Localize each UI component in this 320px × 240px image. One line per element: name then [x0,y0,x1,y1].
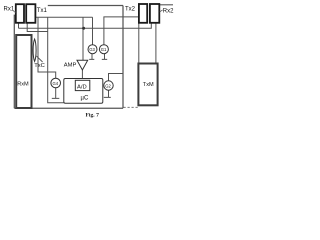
frame left side [14,15,15,108]
frame top [48,5,123,7]
generator G4 [51,78,61,88]
svg-text:G1: G1 [101,47,107,52]
svg-text:RxM: RxM [17,82,29,88]
coil Rx2 [150,4,159,23]
wire Rx2 lead / TxM right lead [155,23,157,64]
wire uC branch [48,17,64,103]
svg-text:Rx2: Rx2 [163,9,174,15]
box uC [64,79,103,104]
svg-text:A/D: A/D [77,85,87,91]
svg-text:Fig. 7: Fig. 7 [86,113,100,119]
wire TxC branch [38,17,56,78]
svg-text:Rx1: Rx1 [4,7,15,13]
coil TxM box [138,64,157,106]
wire G2 riser elbow [109,74,124,81]
wire G2 bottom terminal [104,91,111,98]
amplifier AMP [77,60,88,70]
wire Tx1 lead [27,23,48,32]
svg-text:TxC: TxC [34,63,45,69]
frame top right segment [160,4,173,6]
svg-text:Tx1: Tx1 [37,8,48,14]
svg-text:µC: µC [81,96,89,102]
frame dashed bottom link [124,106,139,108]
leader Rx1 [14,11,17,14]
svg-text:TxM: TxM [143,82,154,88]
wire G1 riser [104,17,139,45]
generator G3 [88,45,97,54]
svg-text:G3: G3 [89,47,95,52]
coil TxC lens [33,39,36,62]
wire G3 bottom terminal [89,54,94,60]
wire AMP input riser [82,17,84,60]
wire G3 stem top [92,17,94,45]
junction dot [82,27,85,30]
leader TxC [36,56,42,62]
svg-text:G2: G2 [105,83,111,88]
coil Tx2 [139,4,147,23]
svg-text:Tx2: Tx2 [125,7,136,13]
svg-text:AMP: AMP [64,62,77,68]
wire G4 bottom terminal [52,88,60,99]
coil RxM box [16,35,31,108]
wire top line [35,16,92,18]
svg-text:G4: G4 [53,81,59,86]
leader Rx2 [160,10,163,12]
wire Rx1 lead [18,23,20,29]
wire AMP output [81,70,83,80]
wire TxM left lead [138,17,140,64]
box A/D [75,80,90,90]
frame right riser [122,6,124,109]
generator G1 [99,45,108,54]
coil Tx1 [26,4,35,23]
wire G1 bottom terminal [102,54,107,60]
wire receive bus [19,23,152,28]
coil Rx1 [16,4,24,23]
frame bottom [14,107,123,109]
generator G2 [104,81,113,90]
